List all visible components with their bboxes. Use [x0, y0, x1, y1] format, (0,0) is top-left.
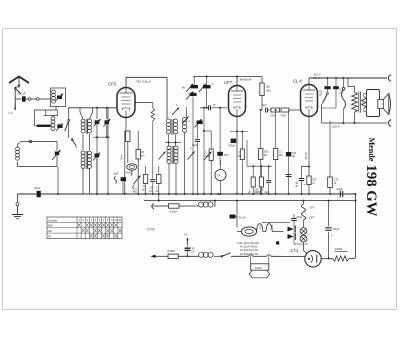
- anode rail CF3: [126, 76, 167, 78]
- svg-text:MΩ: MΩ: [279, 153, 283, 157]
- dial lamp 2: [300, 235, 307, 242]
- resistor anode CF7: [260, 83, 271, 96]
- svg-text:Ω: Ω: [313, 181, 315, 185]
- svg-text:5µF: 5µF: [114, 172, 119, 176]
- wire antenna feed: [15, 98, 21, 100]
- pickup TA: [215, 160, 226, 194]
- trimmer k1: [172, 103, 179, 115]
- cathode bypass cap: [295, 167, 309, 195]
- svg-text:CF7: CF7: [224, 80, 232, 85]
- svg-text:4p: 4p: [182, 86, 186, 90]
- wavetrap trimmer: [56, 124, 63, 132]
- svg-text:700µF: 700µF: [228, 144, 236, 148]
- svg-text:für 220V EU 1Ω: für 220V EU 1Ω: [240, 252, 258, 256]
- capacitor 5n blk: [217, 107, 228, 165]
- label CY1: [291, 248, 299, 253]
- switch table header: [48, 218, 121, 238]
- svg-text:2nF: 2nF: [20, 92, 26, 96]
- wire CY1 right: [321, 258, 332, 260]
- hop right: [267, 255, 271, 257]
- svg-text:150Ω: 150Ω: [335, 247, 343, 251]
- trimmer caps 4p: [182, 84, 198, 92]
- voltage table text: [237, 241, 279, 256]
- wire cap to plug: [26, 98, 29, 100]
- label 78V 2.6mA: [136, 80, 152, 84]
- label 150: [335, 247, 348, 252]
- label CL4 heater: [269, 224, 274, 230]
- trimmer caps 3p: [199, 82, 213, 92]
- svg-text:48V/5mA: 48V/5mA: [240, 77, 252, 81]
- svg-text:für 110V~EU Ω: für 110V~EU Ω: [240, 245, 257, 249]
- capacitor 10nF: [34, 186, 41, 197]
- svg-text:50nF: 50nF: [297, 215, 303, 219]
- potentiometer volume: [133, 176, 141, 194]
- wire barretter feed: [236, 201, 238, 228]
- wire 7mA line: [124, 131, 126, 194]
- coil osc k: [182, 117, 191, 133]
- resistor 100 bypass: [251, 256, 269, 270]
- svg-text:24µF: 24µF: [337, 187, 344, 191]
- tube CF7: [229, 86, 246, 117]
- capacitor 24uF A: [337, 187, 344, 201]
- svg-text:nF: nF: [319, 93, 322, 97]
- resistor 10k AO: [142, 166, 148, 194]
- label CL4: [293, 79, 302, 84]
- barretter EU: [237, 227, 257, 236]
- wires T3 to bus: [169, 133, 185, 195]
- resistor TRO: [328, 121, 339, 194]
- svg-text:42mA: 42mA: [313, 76, 320, 80]
- series capacitor: [200, 103, 227, 110]
- svg-text:(GA1): (GA1): [126, 171, 133, 175]
- fuse GA1: [126, 164, 137, 175]
- heater rail: [144, 194, 356, 202]
- wire box1 bottom: [55, 107, 57, 110]
- svg-text:17 W: 17 W: [147, 228, 155, 232]
- transformer core: [359, 92, 361, 113]
- coupling cap 5nF: [262, 103, 267, 113]
- antenna IA: [184, 233, 189, 247]
- wire junction row: [93, 136, 110, 195]
- svg-text:MΩ: MΩ: [133, 190, 137, 194]
- coil L3 tuning: [16, 142, 21, 167]
- trimmer block mid: [195, 119, 203, 128]
- svg-text:MW: MW: [48, 224, 53, 228]
- wire to choke1: [179, 205, 199, 207]
- svg-text:CF3: CF3: [108, 81, 116, 86]
- resistor 150 field: [333, 256, 356, 261]
- wire 0,25 to choke: [178, 255, 198, 257]
- rectifier CY1: [305, 251, 321, 267]
- plug contact 2: [37, 98, 51, 101]
- svg-text:AO: AO: [149, 189, 153, 193]
- svg-text:170: 170: [334, 178, 339, 182]
- label CF3: [108, 81, 116, 86]
- capacitor 24uF B: [325, 201, 339, 259]
- resistor 0,15A: [169, 204, 180, 214]
- heater loop CL4: [266, 224, 284, 232]
- wire CF3 anode: [125, 77, 127, 87]
- trimmer T4 left: [159, 152, 166, 160]
- output transformer primary: [348, 78, 357, 123]
- svg-text:µF: µF: [192, 250, 195, 254]
- wire antenna down: [14, 89, 16, 107]
- wire T1 bottoms: [83, 134, 90, 150]
- resistor R-screen CF3: [136, 131, 145, 174]
- resistor 100k: [259, 109, 269, 194]
- wire 0,1 down: [322, 89, 337, 108]
- wire CL4 anode: [308, 78, 310, 85]
- svg-text:5nF: 5nF: [262, 103, 267, 107]
- grid resistors CL4: [268, 108, 300, 118]
- wire CF7 cathode: [236, 117, 238, 132]
- label 215V 42mA: [313, 73, 322, 80]
- heater loop CY1: [257, 224, 266, 232]
- wire bandfilter top: [80, 108, 93, 119]
- wire ground drop: [17, 194, 19, 203]
- resistor 300: [238, 132, 244, 195]
- svg-text:1P 6,3V 0,2A: 1P 6,3V 0,2A: [294, 243, 308, 246]
- dial lamp 1: [300, 228, 307, 235]
- svg-text:kΩ: kΩ: [264, 153, 267, 157]
- svg-text:4kΩ: 4kΩ: [266, 89, 271, 93]
- svg-text:kΩ: kΩ: [238, 154, 241, 158]
- svg-text:10nF: 10nF: [34, 186, 41, 190]
- IF transformer T1: [81, 119, 92, 134]
- label 17W: [147, 228, 155, 232]
- tone switch: [322, 89, 329, 123]
- wire to hop: [231, 255, 249, 257]
- label 225V: [331, 125, 341, 129]
- terminal top right: [388, 75, 391, 82]
- tube CL4: [301, 85, 318, 117]
- svg-text:µF: µF: [292, 154, 295, 158]
- svg-text:100Ω: 100Ω: [255, 266, 263, 270]
- label CY1 heater: [258, 223, 264, 229]
- svg-text:LW: LW: [48, 229, 52, 233]
- wire CL4 cathode: [308, 117, 310, 177]
- wire to coupling: [261, 96, 263, 111]
- wire grid CF3: [68, 107, 116, 109]
- wire between hops: [253, 255, 267, 257]
- variable capacitor C6: [52, 142, 61, 167]
- wire h cf7: [230, 131, 248, 133]
- tone element S: [342, 87, 346, 109]
- wire to CY1: [271, 255, 305, 257]
- svg-text:CF3: CF3: [310, 206, 315, 210]
- capacitor 100uF: [286, 110, 297, 194]
- svg-text:TA: TA: [48, 234, 51, 238]
- spark contact 1: [288, 226, 296, 233]
- label lamps: [294, 243, 308, 246]
- wavetrap coil: [51, 110, 58, 131]
- wire lower row top: [247, 140, 272, 167]
- output transformer secondary: [362, 94, 367, 112]
- svg-text:100: 100: [264, 150, 269, 154]
- link hexagon: [249, 270, 269, 278]
- svg-text:24µF: 24µF: [333, 227, 340, 231]
- wavetrap loop: [34, 110, 57, 126]
- oscillator coil T2: [81, 151, 92, 194]
- junction ball: [16, 203, 19, 206]
- svg-text:(F: (F: [213, 103, 216, 107]
- wire CF7 anode: [237, 77, 262, 86]
- tube CF3: [117, 88, 135, 118]
- svg-text:7mA: 7mA: [120, 154, 124, 160]
- wire rail ends: [355, 193, 357, 258]
- switch S3: [71, 139, 76, 148]
- label CF7: [224, 80, 232, 85]
- svg-text:50 nF: 50 nF: [239, 215, 246, 219]
- svg-text:Mende: Mende: [367, 138, 376, 162]
- label 7mA: [120, 154, 124, 160]
- svg-text:+: +: [337, 197, 339, 201]
- svg-text:CL 4: CL 4: [293, 79, 302, 84]
- mains switch: [214, 253, 236, 257]
- wire anode down: [166, 77, 168, 119]
- lower row cap: [266, 166, 271, 194]
- fuse line 0,25A: [151, 255, 169, 258]
- trimmer C4: [94, 108, 101, 137]
- rail dots ground: [107, 193, 331, 195]
- trimmer C5: [103, 108, 110, 137]
- wire S down: [343, 109, 345, 123]
- svg-text:2,1: 2,1: [279, 150, 283, 154]
- svg-text:M: M: [119, 218, 121, 222]
- padder trimmer: [93, 153, 100, 195]
- grid 2 wire: [343, 78, 345, 87]
- lower row box1: [251, 166, 255, 194]
- resistor 270 cathode: [307, 176, 317, 194]
- wire tuning loop bottom: [18, 167, 60, 196]
- resistor cathode CF3: [126, 131, 130, 163]
- mains choke 2: [199, 252, 214, 257]
- wire antenna to switch: [15, 87, 19, 88]
- heater top wire: [262, 222, 290, 231]
- wire pot down: [137, 174, 139, 194]
- plug contact: [28, 98, 36, 101]
- IF transformer T4: [167, 146, 178, 164]
- svg-text:78V 2,6mA: 78V 2,6mA: [136, 80, 152, 84]
- switch table grid: [47, 217, 122, 239]
- svg-text:4700: 4700: [270, 115, 276, 118]
- svg-text:+: +: [304, 183, 306, 187]
- svg-text:CY1: CY1: [291, 248, 299, 253]
- coil box L1: [51, 88, 66, 107]
- svg-text:0,25A: 0,25A: [168, 249, 176, 253]
- wire choke1 up: [214, 201, 215, 206]
- wire CF3 cathode: [125, 118, 127, 132]
- svg-text:CF7: CF7: [310, 216, 315, 220]
- capacitor 0,1 out: [333, 78, 343, 95]
- spark contact 2: [279, 226, 295, 244]
- svg-text:225 V: 225 V: [331, 125, 341, 129]
- svg-text:TA: TA: [217, 174, 221, 178]
- svg-text:(REM): (REM): [254, 191, 261, 194]
- hop left: [249, 255, 253, 257]
- wire top link: [193, 76, 262, 78]
- rail 225V: [322, 122, 388, 124]
- speaker: [367, 90, 391, 117]
- svg-text:unter 110V~EU 2Ω: unter 110V~EU 2Ω: [237, 241, 259, 245]
- antenna: [9, 77, 29, 88]
- svg-text:für 150V EU 1Ω: für 150V EU 1Ω: [240, 248, 258, 252]
- resistor 1M: [203, 130, 213, 194]
- capacitor 30pF: [185, 247, 195, 257]
- wire tuning loop top: [21, 140, 57, 143]
- terminal lower right: [388, 120, 391, 127]
- switch S1 antenna: [14, 88, 20, 95]
- capacitor 2kpF: [192, 124, 200, 194]
- top rail right: [309, 77, 387, 79]
- capacitor 5n out: [319, 78, 331, 97]
- electrolytic 5uF: [114, 172, 127, 184]
- wavetrap capacitor bar: [34, 125, 50, 127]
- wire h mid: [165, 142, 181, 144]
- lower row box2: [259, 166, 263, 194]
- svg-text:kΩ: kΩ: [142, 188, 145, 192]
- wires 4p verticals: [194, 77, 208, 109]
- heater chain CF: [302, 201, 315, 228]
- wire GA1 down: [131, 170, 133, 176]
- svg-text:198 GW: 198 GW: [363, 165, 379, 217]
- svg-text:+: +: [331, 234, 333, 238]
- resistor row b: [156, 166, 162, 194]
- svg-text:45mA: 45mA: [304, 152, 308, 159]
- svg-text:L A: L A: [9, 111, 13, 115]
- capacitor 2nF: [20, 92, 26, 102]
- svg-text:I A: I A: [184, 233, 187, 237]
- svg-text:Schalter: Schalter: [48, 218, 58, 222]
- wire 5uF: [122, 181, 124, 194]
- resistor 0,25A: [168, 249, 179, 259]
- title 198 GW: [363, 165, 379, 217]
- label 48V 5mA: [240, 77, 252, 81]
- wire lamps down: [304, 242, 308, 254]
- capacitor 700uF: [228, 131, 237, 194]
- labels lower row: [248, 189, 269, 195]
- capacitor 50nF b: [290, 214, 303, 226]
- label 45mA: [304, 152, 308, 159]
- label 50-50nF: [230, 215, 246, 220]
- wire CF3 grid lead: [107, 108, 109, 194]
- svg-text:Ω: Ω: [334, 181, 336, 185]
- ground bus wire: [18, 193, 356, 195]
- switch S2 band: [65, 108, 70, 138]
- trimmer pair mid: [186, 92, 197, 100]
- title Mende: [367, 138, 376, 162]
- capacitor 2uF row: [149, 170, 155, 194]
- arrow to chassis LA: [9, 103, 17, 115]
- wire osc col: [187, 97, 205, 196]
- switch table marks: [78, 223, 122, 237]
- svg-text:4700: 4700: [281, 115, 287, 118]
- wire to ground: [17, 206, 19, 214]
- pot arrow mid: [204, 152, 212, 161]
- svg-text:5nF: 5nF: [224, 153, 229, 157]
- trimmer T4 right: [188, 146, 195, 160]
- svg-text:µF: µF: [156, 189, 159, 193]
- ground: [12, 215, 23, 219]
- resistor 2,1M: [273, 109, 283, 194]
- IF transformer T3: [166, 119, 177, 135]
- svg-text:kΩ: kΩ: [141, 154, 144, 158]
- svg-text:0,15A: 0,15A: [170, 210, 178, 214]
- fuse line 0,15A: [152, 204, 169, 209]
- wire CF3 side lead: [135, 103, 155, 171]
- mains choke 1: [199, 202, 214, 207]
